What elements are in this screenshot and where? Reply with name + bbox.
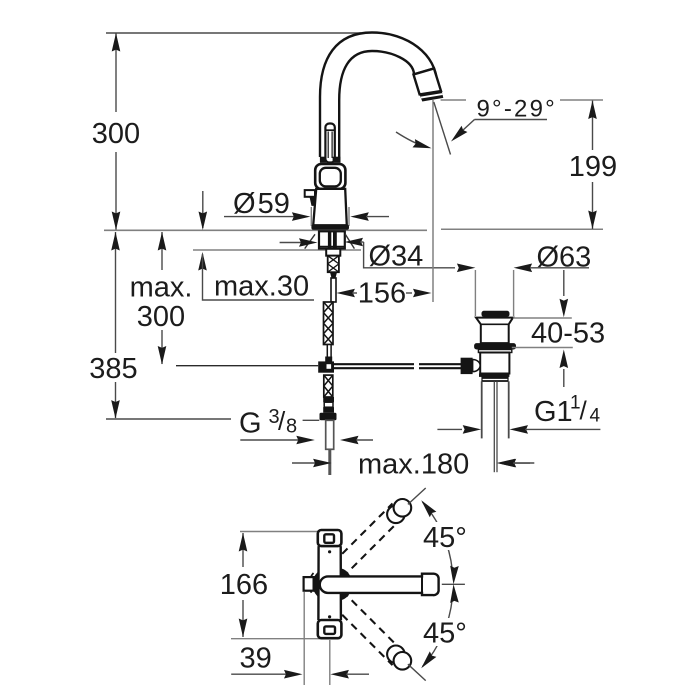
dim O59: left arrow line <box>224 216 294 218</box>
drain inner pipe <box>493 381 495 472</box>
deck hole slash right <box>345 234 354 248</box>
drain inlet from pipe <box>461 358 473 374</box>
dim 385: vertical dimension line <box>115 232 117 418</box>
hub wedge upper right <box>342 569 351 577</box>
svg-text:/: / <box>278 406 286 436</box>
angle arc with arrow <box>396 132 426 147</box>
svg-text:max.180: max.180 <box>358 449 469 481</box>
column tick dots <box>328 550 331 553</box>
countertop deck line <box>104 229 427 231</box>
faucet gooseneck spout inner curve <box>339 51 414 157</box>
dim 156: right arrow <box>406 292 412 294</box>
upper 45 arc <box>423 502 453 570</box>
svg-text:9°-29°: 9°-29° <box>477 96 557 123</box>
stream angled line <box>434 102 451 155</box>
lower 45 axis extension <box>408 664 426 680</box>
braided hose lower <box>324 375 333 397</box>
dim 40-53: top ref line <box>513 317 572 319</box>
dim max.30: lower arrow + bracket <box>198 252 207 271</box>
drain body <box>480 353 509 374</box>
lever escutcheon inner <box>320 168 341 187</box>
tee junction fitting <box>325 357 332 363</box>
drain white ring <box>478 350 511 353</box>
dim 39: right arrow <box>330 670 349 679</box>
9-29 leader arrow <box>462 120 475 132</box>
dim 39: extension lines <box>303 592 305 685</box>
lower 45 spout dashed walls <box>333 591 405 665</box>
side tab bracket <box>310 197 316 206</box>
svg-text:Ø63: Ø63 <box>537 242 592 274</box>
base flange <box>311 225 349 230</box>
svg-text:300: 300 <box>137 301 185 333</box>
dim O63: arrows on y=268 line <box>457 264 476 273</box>
dim 156: left arrow <box>336 289 355 298</box>
left square <box>304 577 314 591</box>
svg-text:156: 156 <box>358 278 406 310</box>
svg-text:max.: max. <box>130 272 193 304</box>
G 3/8 nut <box>320 413 337 421</box>
bottom mounting tab <box>318 620 342 638</box>
dim 385: bottom reference line <box>106 418 231 420</box>
svg-text:300: 300 <box>92 118 140 150</box>
horizontal pipe to drain (segment 2) <box>419 364 462 368</box>
upper 45 spout end cap <box>387 506 405 524</box>
svg-text:45°: 45° <box>423 618 467 650</box>
dim G1 1/4: arrows <box>437 428 462 430</box>
svg-text:199: 199 <box>569 151 617 183</box>
body column top view <box>318 546 341 620</box>
dim 40-53: top arrow <box>563 270 565 296</box>
dim max180 right arrow at pipe bottom <box>498 459 517 468</box>
dim O34: bracket <box>364 242 455 268</box>
svg-text:4: 4 <box>590 405 601 426</box>
mounting shank below deck <box>319 231 345 248</box>
svg-text:Ø59: Ø59 <box>233 188 290 220</box>
drain body bottom band <box>479 374 509 377</box>
svg-text:39: 39 <box>240 643 272 675</box>
dim 40-53: bottom arrow <box>560 350 569 369</box>
spout outlet reference line at y=100 <box>441 99 466 101</box>
dim max.30: upper arrow above deck <box>202 191 204 228</box>
supply line to the left <box>176 365 318 367</box>
dim max.300: vertical dimension line <box>161 232 163 364</box>
deck reference line right <box>441 228 603 230</box>
dim hose: left arrow <box>240 439 298 441</box>
svg-text:166: 166 <box>220 569 268 601</box>
dim G3/8: leader line <box>303 419 320 421</box>
hub mask <box>320 547 341 619</box>
svg-text:Ø34: Ø34 <box>369 241 424 273</box>
shank nut <box>326 249 340 256</box>
dim 166: top ref line <box>240 531 318 533</box>
9-29 underline <box>475 119 548 121</box>
stud neck <box>330 272 337 278</box>
svg-text:max.30: max.30 <box>214 271 309 303</box>
riser cuffs <box>320 157 327 163</box>
top mounting tab <box>318 530 342 546</box>
threaded stud with cross hatch <box>328 256 339 273</box>
dim 166: bottom ref line <box>231 638 340 640</box>
spout aerator joint line <box>414 69 435 75</box>
lower 45 spout end cap <box>387 646 405 664</box>
svg-text:385: 385 <box>89 353 137 385</box>
lever escutcheon outer <box>315 164 345 189</box>
deck hole slash left <box>305 234 315 248</box>
spout top view <box>320 574 439 595</box>
dim 39: left arrow <box>231 673 287 675</box>
faucet lever rod <box>325 124 334 163</box>
dim max.180: left arrow <box>292 462 315 464</box>
dim 166: vertical dimension line <box>242 533 244 637</box>
centerline stub <box>442 583 465 585</box>
dim O34: left arrow <box>280 242 301 244</box>
stream vertical line <box>432 100 434 302</box>
upper 45 axis extension <box>408 488 426 504</box>
spout aerator tip dark rings <box>419 90 443 102</box>
svg-text:8: 8 <box>286 416 297 438</box>
spout aerator body <box>414 69 442 95</box>
dim 300: vertical dimension line with arrows <box>115 33 117 230</box>
drain upper flange <box>476 318 513 344</box>
lower 45 arc <box>423 599 453 667</box>
hose end nut stack <box>323 397 334 402</box>
faucet body <box>313 189 347 225</box>
dim max.180: right arrow <box>497 459 515 468</box>
dim max.30: underside of counter line <box>193 249 361 251</box>
dim O59: left extension line <box>310 207 312 226</box>
hub dark ring <box>315 570 343 598</box>
svg-text:G1: G1 <box>534 396 573 428</box>
faucet gooseneck spout outer curve <box>320 33 437 158</box>
label 45 lower <box>420 618 472 646</box>
dim hose: right arrow <box>340 436 359 445</box>
dim O59: right extension line <box>348 207 350 226</box>
dim 40-53: bottom ref line <box>512 347 573 349</box>
supply tube upper <box>331 278 336 302</box>
drain plug head <box>482 311 510 317</box>
side tab <box>305 190 315 197</box>
svg-text:40-53: 40-53 <box>531 318 605 350</box>
horizontal pipe to drain (segment 1) <box>334 364 414 368</box>
hose neck to junction <box>327 345 331 358</box>
hub dashed circle <box>309 573 313 596</box>
svg-text:/: / <box>580 396 588 426</box>
label 45 upper <box>420 522 472 550</box>
svg-text:G: G <box>239 408 262 440</box>
hub wedge lower right <box>342 592 351 600</box>
svg-text:45°: 45° <box>423 522 467 554</box>
braided hose upper <box>324 302 334 345</box>
drain tailpipe <box>481 381 483 438</box>
dim O59: right arrow line <box>350 212 369 221</box>
dim O63: extension lines <box>474 270 476 316</box>
drain collar dark band <box>474 343 516 349</box>
dim O34: right arrow <box>345 238 364 247</box>
supply tail tube <box>326 420 334 449</box>
upper 45 spout dashed walls <box>333 504 405 578</box>
dim 300: top reference line <box>106 32 361 34</box>
drain thread band <box>482 378 508 381</box>
dim 199: vertical line <box>592 101 594 230</box>
